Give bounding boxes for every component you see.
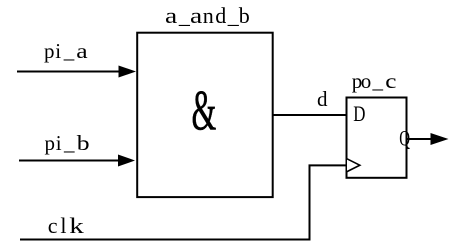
wire d (AND output to flip-flop D input)	[273, 114, 347, 116]
svg-text:_: _	[178, 3, 191, 28]
svg-text:D: D	[353, 102, 365, 127]
svg-text:pi_: pi_	[45, 131, 76, 155]
arrowhead pi_b input	[118, 155, 135, 167]
arrowhead pi_a input	[119, 66, 137, 78]
wire pi_b	[19, 160, 120, 162]
svg-text:a: a	[76, 40, 88, 63]
svg-text:a: a	[165, 4, 177, 28]
gate symbol &	[192, 79, 217, 142]
svg-text:&: &	[192, 79, 217, 142]
svg-text:a: a	[190, 4, 202, 28]
flip-flop po_c	[347, 98, 407, 178]
pin label D	[353, 102, 365, 127]
arrowhead output	[431, 133, 449, 145]
svg-text:po_: po_	[352, 69, 384, 93]
svg-text:pi_: pi_	[44, 39, 75, 63]
wire clk (horizontal, vertical riser, into clock pin)	[20, 165, 347, 239]
svg-text:b: b	[77, 132, 90, 155]
svg-text:k: k	[69, 213, 84, 238]
svg-text:c: c	[385, 70, 396, 94]
pin label Q	[399, 127, 410, 152]
clock triangle pin	[347, 159, 360, 172]
wire pi_a	[17, 71, 120, 73]
label a_and_b	[165, 4, 177, 28]
svg-text:d: d	[317, 87, 328, 111]
wire Q output	[407, 138, 433, 140]
AND block a_and_b	[137, 33, 273, 197]
svg-text:cl: cl	[48, 213, 67, 238]
